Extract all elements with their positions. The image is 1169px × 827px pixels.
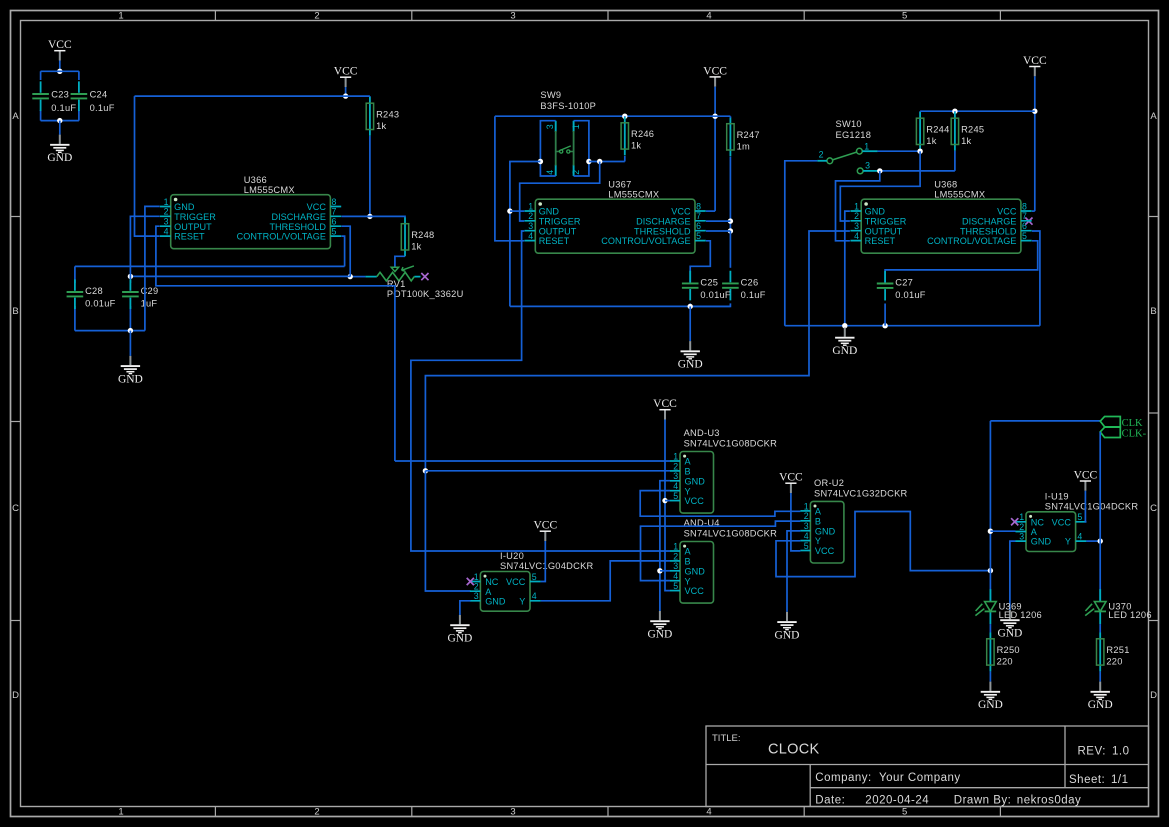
svg-text:R250: R250 xyxy=(997,645,1020,655)
svg-text:3: 3 xyxy=(865,161,870,171)
LED U370 LED 1206 xyxy=(1085,589,1152,624)
wire U367 CONTROL pin5 to C25 xyxy=(690,241,710,283)
wire VCC to OR-U2 pin5 xyxy=(791,493,801,551)
svg-text:REV:: REV: xyxy=(1078,746,1106,758)
junction TRIG/C29 node xyxy=(128,274,133,279)
wire R246 leads xyxy=(624,116,626,161)
svg-text:1: 1 xyxy=(1019,512,1024,522)
svg-text:GND: GND xyxy=(47,152,72,164)
svg-text:3: 3 xyxy=(474,591,479,601)
wire SW9 to R246 xyxy=(589,161,625,163)
svg-text:2: 2 xyxy=(819,150,824,160)
svg-text:LED 1206: LED 1206 xyxy=(999,610,1042,620)
svg-text:VCC: VCC xyxy=(48,39,72,51)
svg-text:GND: GND xyxy=(647,629,672,641)
svg-text:TRIGGER: TRIGGER xyxy=(174,212,216,222)
wire U370 to R251 xyxy=(1099,624,1101,632)
svg-text:2: 2 xyxy=(673,551,678,561)
power VCC above I-U19 xyxy=(1074,470,1098,491)
svg-text:GND: GND xyxy=(1031,537,1052,547)
svg-text:4: 4 xyxy=(854,231,859,241)
svg-text:D: D xyxy=(12,690,19,701)
junction C23/C24 top node xyxy=(57,69,62,74)
wire R244 leads xyxy=(919,111,921,151)
svg-text:R244: R244 xyxy=(926,124,949,134)
wire to U367 TRIGGER pin2 xyxy=(520,162,600,222)
svg-text:B: B xyxy=(685,467,691,477)
svg-text:4: 4 xyxy=(673,481,678,491)
junction R243 / pin7 node xyxy=(367,214,372,219)
svg-text:4: 4 xyxy=(532,591,537,601)
svg-text:2: 2 xyxy=(164,207,169,217)
svg-text:C: C xyxy=(12,503,19,514)
svg-text:C26: C26 xyxy=(741,278,759,288)
junction CLK/LED node xyxy=(988,568,993,573)
svg-text:2: 2 xyxy=(314,807,319,818)
wire U366 CONTROL pin5 via C28 xyxy=(75,236,345,331)
svg-text:3: 3 xyxy=(1019,532,1024,542)
wire U368 GND rail xyxy=(785,325,1040,327)
svg-text:C29: C29 xyxy=(141,286,159,296)
junction U366 VCC rail xyxy=(343,93,348,98)
wire U367 GND pin1 wire xyxy=(510,210,524,212)
svg-text:R243: R243 xyxy=(376,109,399,119)
wire R251 to GND xyxy=(1099,671,1101,681)
svg-text:2: 2 xyxy=(528,211,533,221)
wire SW9 pins 3-4 hook xyxy=(540,121,555,176)
svg-text:4: 4 xyxy=(706,11,711,22)
wire U366 THRESHOLD pin6 down xyxy=(341,226,350,276)
wire SW10 pin3 to R245 xyxy=(878,170,955,172)
svg-text:VCC: VCC xyxy=(779,472,803,484)
ground below U367 xyxy=(678,341,703,371)
wire C26 bottom to GND rail xyxy=(690,303,730,306)
svg-text:NC: NC xyxy=(485,577,499,587)
wire AND-U4 pin3 wire xyxy=(660,570,670,572)
svg-text:3: 3 xyxy=(673,561,678,571)
wire SW10 pin1 to R244 xyxy=(878,150,921,152)
svg-text:B: B xyxy=(12,306,18,317)
svg-text:GND: GND xyxy=(485,596,506,606)
svg-text:1m: 1m xyxy=(737,141,750,151)
wire pin6 to C26 xyxy=(729,231,731,268)
svg-text:1/1: 1/1 xyxy=(1111,774,1129,786)
svg-text:C28: C28 xyxy=(85,286,103,296)
resistor R248 1k xyxy=(401,217,434,256)
junction CLK- node xyxy=(1098,538,1103,543)
svg-text:1k: 1k xyxy=(631,140,641,150)
resistor R247 1m xyxy=(727,117,760,156)
junction AND-U3 VCC node xyxy=(662,498,667,503)
power VCC above C23/C24 xyxy=(48,39,72,60)
svg-text:5: 5 xyxy=(804,541,809,551)
no-connect X I-U20 pin1 xyxy=(467,578,474,585)
ground below U366 xyxy=(118,356,143,386)
svg-text:1: 1 xyxy=(864,141,869,151)
svg-text:LM555CMX: LM555CMX xyxy=(608,190,659,200)
svg-text:GND: GND xyxy=(978,699,1003,711)
svg-text:6: 6 xyxy=(1022,221,1027,231)
wire VCC to U367 RESET pin4 xyxy=(495,116,524,241)
svg-text:R251: R251 xyxy=(1106,645,1129,655)
svg-text:THRESHOLD: THRESHOLD xyxy=(634,226,691,236)
junction AND-U4 GND node xyxy=(657,568,662,573)
svg-text:GND: GND xyxy=(685,476,706,486)
svg-text:I-U19: I-U19 xyxy=(1045,491,1069,501)
wire VCC to I-U19 pin5 xyxy=(1085,491,1086,522)
wire U367 DISCHARGE pin7 wire xyxy=(706,220,730,222)
svg-text:C27: C27 xyxy=(895,278,913,288)
svg-text:0.01uF: 0.01uF xyxy=(700,290,731,300)
junction CLK/I-U19 A node xyxy=(988,529,993,534)
net flag CLK xyxy=(1100,417,1143,429)
wire I-U19 Y wire xyxy=(1086,540,1100,542)
no-connect X RV1 pin3 xyxy=(421,273,428,280)
svg-text:1: 1 xyxy=(528,201,533,211)
wire SW9/U367 VCC rail xyxy=(495,115,731,117)
svg-text:A: A xyxy=(685,457,692,467)
svg-text:VCC: VCC xyxy=(703,65,727,77)
wire U368 GND pin1 down xyxy=(845,211,850,326)
svg-text:4: 4 xyxy=(1077,532,1082,542)
svg-text:OUTPUT: OUTPUT xyxy=(539,226,577,236)
ground below AND-U4 xyxy=(647,611,672,641)
title block xyxy=(706,726,1149,807)
svg-text:RESET: RESET xyxy=(539,236,570,246)
inverter I-U20 SN74LVC1G04DCKR xyxy=(470,551,594,611)
svg-text:1k: 1k xyxy=(961,136,971,146)
wire U368 pin8 wire xyxy=(1032,210,1035,212)
svg-text:GND: GND xyxy=(775,630,800,642)
wire branch to I-U20 A xyxy=(425,471,470,591)
ground below OR-U2 xyxy=(775,612,800,642)
svg-text:220: 220 xyxy=(997,656,1013,666)
wire OR-U2 GND pin3 xyxy=(787,531,800,612)
potentiometer RV1 POT100K_3362U xyxy=(365,266,463,299)
svg-text:CONTROL/VOLTAGE: CONTROL/VOLTAGE xyxy=(601,236,690,246)
svg-text:4: 4 xyxy=(804,531,809,541)
svg-text:SW9: SW9 xyxy=(540,90,561,100)
switch SW9 B3FS-1010P pushbutton xyxy=(540,90,596,176)
border ticks xyxy=(214,11,216,817)
svg-text:TITLE:: TITLE: xyxy=(712,733,741,744)
svg-text:3: 3 xyxy=(804,521,809,531)
junction SW9 right node xyxy=(586,159,591,164)
svg-text:U367: U367 xyxy=(608,180,631,190)
svg-text:Sheet:: Sheet: xyxy=(1069,774,1105,786)
wire CLK- vertical xyxy=(1099,432,1101,602)
svg-text:R245: R245 xyxy=(961,124,984,134)
wire R243 leads xyxy=(369,96,371,216)
svg-text:Drawn By:: Drawn By: xyxy=(954,794,1012,806)
capacitor C26 0.1uF xyxy=(722,271,766,301)
svg-text:8: 8 xyxy=(1022,201,1027,211)
svg-text:0.1uF: 0.1uF xyxy=(51,103,76,113)
svg-text:OR-U2: OR-U2 xyxy=(814,478,844,488)
svg-text:2: 2 xyxy=(673,461,678,471)
wire C27 bottom lead xyxy=(884,304,886,326)
svg-text:VCC: VCC xyxy=(1052,517,1072,527)
junction R247/pin7 node xyxy=(728,218,733,223)
wire AND-U3 Y to OR-U2 A xyxy=(640,491,800,517)
LED U369 LED 1206 xyxy=(975,589,1042,624)
junction R244/pin1/TRIG node xyxy=(917,149,922,154)
junction U367 pin1 node xyxy=(507,208,512,213)
power VCC above I-U20 xyxy=(533,520,557,541)
wire U366 OUTPUT pin3 to AND-U3 A xyxy=(156,226,395,461)
no-connect X U368 pin7 xyxy=(1025,218,1032,225)
svg-text:1: 1 xyxy=(673,451,678,461)
svg-text:1: 1 xyxy=(571,124,581,129)
svg-text:3: 3 xyxy=(854,221,859,231)
wire to I-U19 pin2 A xyxy=(990,530,1015,532)
svg-text:SW10: SW10 xyxy=(836,119,862,129)
svg-text:6: 6 xyxy=(332,217,337,227)
power VCC above U367 xyxy=(703,65,727,86)
svg-text:VCC: VCC xyxy=(533,520,557,532)
svg-text:2: 2 xyxy=(474,582,479,592)
wire U366 OUT to AND-U3 pin1 xyxy=(395,460,670,462)
svg-text:VCC: VCC xyxy=(307,202,327,212)
wire U367 GND rail xyxy=(510,305,731,307)
junction GND rail node xyxy=(128,328,133,333)
junction U368 OUT branch node xyxy=(423,468,428,473)
svg-text:GND: GND xyxy=(865,207,886,217)
wire SW10 pin2 to GND rail xyxy=(785,161,818,326)
svg-text:Y: Y xyxy=(685,576,691,586)
svg-text:7: 7 xyxy=(1022,211,1027,221)
junction C23/C24 bottom node xyxy=(57,118,62,123)
svg-text:5: 5 xyxy=(1077,512,1082,522)
svg-text:1: 1 xyxy=(804,501,809,511)
svg-text:4: 4 xyxy=(164,227,169,237)
junction pin6/C26 node xyxy=(728,228,733,233)
svg-text:LM555CMX: LM555CMX xyxy=(934,190,985,200)
svg-text:nekros0day: nekros0day xyxy=(1017,794,1081,806)
svg-text:POT100K_3362U: POT100K_3362U xyxy=(387,289,464,299)
svg-text:THRESHOLD: THRESHOLD xyxy=(960,226,1017,236)
svg-text:4: 4 xyxy=(528,231,533,241)
svg-text:1k: 1k xyxy=(926,136,936,146)
svg-text:A: A xyxy=(1150,111,1157,122)
svg-text:GND: GND xyxy=(447,633,472,645)
wire U367 pin8 stub wire xyxy=(706,210,715,212)
resistor R245 1k xyxy=(951,112,984,151)
wire AND-U3 pin5 wire xyxy=(665,500,670,502)
wire U368 VCC rail xyxy=(920,110,1035,112)
svg-text:3: 3 xyxy=(164,217,169,227)
svg-text:5: 5 xyxy=(696,231,701,241)
svg-text:B: B xyxy=(815,516,821,526)
svg-text:C24: C24 xyxy=(90,90,108,100)
svg-text:2: 2 xyxy=(804,511,809,521)
svg-text:TRIGGER: TRIGGER xyxy=(539,216,581,226)
svg-text:CONTROL/VOLTAGE: CONTROL/VOLTAGE xyxy=(237,232,326,242)
svg-text:5: 5 xyxy=(673,581,678,591)
svg-text:A: A xyxy=(1031,527,1038,537)
wire AND-U4 Y to OR-U2 B xyxy=(641,521,801,581)
wire U367 THRESHOLD pin6 wire xyxy=(706,230,730,232)
capacitor C23 0.1uF xyxy=(32,81,76,113)
svg-text:GND: GND xyxy=(832,345,857,357)
svg-text:LED 1206: LED 1206 xyxy=(1108,610,1151,620)
junction C27 bottom node xyxy=(882,323,887,328)
wire to U368 TRIGGER pin2 xyxy=(840,151,920,221)
svg-text:220: 220 xyxy=(1106,656,1122,666)
ground below R250 xyxy=(978,682,1003,712)
svg-text:3: 3 xyxy=(673,471,678,481)
resistor R244 1k xyxy=(916,112,949,151)
wire TRIG-THRES link xyxy=(130,275,350,277)
svg-text:5: 5 xyxy=(332,227,337,237)
svg-text:GND: GND xyxy=(1088,699,1113,711)
svg-text:4: 4 xyxy=(545,170,555,175)
svg-text:VCC: VCC xyxy=(815,546,835,556)
svg-text:2: 2 xyxy=(854,211,859,221)
svg-text:U368: U368 xyxy=(934,180,957,190)
svg-text:TRIGGER: TRIGGER xyxy=(865,216,907,226)
svg-text:1: 1 xyxy=(164,197,169,207)
svg-text:0.1uF: 0.1uF xyxy=(90,103,115,113)
wire U368 OUTPUT pin3 long route xyxy=(425,231,850,471)
svg-text:R248: R248 xyxy=(411,230,434,240)
svg-text:DISCHARGE: DISCHARGE xyxy=(636,216,691,226)
svg-text:A: A xyxy=(685,547,692,557)
svg-text:Y: Y xyxy=(815,536,821,546)
ground below C23/C24 xyxy=(47,135,72,165)
svg-text:RV1: RV1 xyxy=(387,279,406,289)
svg-text:GND: GND xyxy=(539,207,560,217)
wire CLK wire to flag xyxy=(990,420,1100,422)
svg-text:8: 8 xyxy=(332,197,337,207)
wire rail to GND symbol xyxy=(689,306,691,341)
svg-text:VCC: VCC xyxy=(685,496,705,506)
resistor R243 1k xyxy=(366,97,399,136)
wire U367 OUTPUT pin3 to AND-U4 A xyxy=(411,231,670,551)
svg-text:VCC: VCC xyxy=(334,66,358,78)
ground below I-U19 xyxy=(997,610,1022,640)
wire branch to AND-U3 B xyxy=(425,470,670,472)
svg-text:DISCHARGE: DISCHARGE xyxy=(962,216,1017,226)
svg-text:3: 3 xyxy=(510,807,515,818)
svg-text:AND-U3: AND-U3 xyxy=(684,428,720,438)
svg-text:C: C xyxy=(1150,503,1157,514)
svg-text:1: 1 xyxy=(474,572,479,582)
svg-text:7: 7 xyxy=(696,211,701,221)
svg-text:0.01uF: 0.01uF xyxy=(895,290,926,300)
wire U366 DISCHARGE pin7 to R248 xyxy=(341,216,405,217)
svg-text:VCC: VCC xyxy=(1074,470,1098,482)
svg-text:SN74LVC1G04DCKR: SN74LVC1G04DCKR xyxy=(1045,501,1139,511)
svg-text:4: 4 xyxy=(673,571,678,581)
power VCC above U366 xyxy=(334,66,358,87)
svg-text:U366: U366 xyxy=(244,175,267,185)
junction SW10 pin3 node xyxy=(877,168,882,173)
wire VCC to I-U20 pin5 xyxy=(541,541,546,582)
svg-text:CLOCK: CLOCK xyxy=(768,742,819,758)
wire GND rail to symbol xyxy=(129,331,131,356)
svg-text:3: 3 xyxy=(528,221,533,231)
wire RV1 left lead wire xyxy=(350,276,365,278)
svg-text:VCC: VCC xyxy=(685,586,705,596)
svg-text:RESET: RESET xyxy=(174,232,205,242)
svg-text:2: 2 xyxy=(571,170,581,175)
svg-text:VCC: VCC xyxy=(653,398,677,410)
capacitor C29 1uF xyxy=(122,279,158,309)
svg-text:VCC: VCC xyxy=(1023,55,1047,67)
wire U366 VCC rail xyxy=(135,95,370,97)
svg-text:Y: Y xyxy=(1065,537,1071,547)
wire VCC stub/pin8 feed U368 xyxy=(1034,76,1036,211)
svg-text:1k: 1k xyxy=(411,241,421,251)
wire R250 to GND xyxy=(989,671,991,681)
svg-text:Company:: Company: xyxy=(815,772,871,784)
svg-text:RESET: RESET xyxy=(865,236,896,246)
svg-text:GND: GND xyxy=(118,374,143,386)
op-amp timer U366 LM555CMX xyxy=(160,175,341,249)
junction R245 top node xyxy=(952,109,957,114)
svg-text:1: 1 xyxy=(854,201,859,211)
wire SW9 to U367 GND/pin1 xyxy=(510,162,541,307)
wire VCC feed AND gates xyxy=(665,420,670,591)
svg-text:SN74LVC1G08DCKR: SN74LVC1G08DCKR xyxy=(684,439,778,449)
svg-text:OUTPUT: OUTPUT xyxy=(174,222,212,232)
op-amp timer U367 LM555CMX xyxy=(525,180,706,254)
junction GND rail node U368 xyxy=(842,323,847,328)
svg-text:4: 4 xyxy=(706,807,711,818)
no-connect X I-U19 pin1 xyxy=(1011,518,1018,525)
wire R248 to RV1 wiper xyxy=(395,256,405,267)
svg-text:R247: R247 xyxy=(737,130,760,140)
svg-text:A: A xyxy=(485,587,492,597)
junction R246 top node xyxy=(622,114,627,119)
svg-text:1: 1 xyxy=(673,541,678,551)
and-gate AND-U4 SN74LVC1G08DCKR xyxy=(670,518,777,603)
svg-text:C25: C25 xyxy=(700,278,718,288)
wire node to GND xyxy=(59,121,61,135)
wire U368 THRESHOLD pin6 to rail xyxy=(1032,231,1040,326)
svg-text:1.0: 1.0 xyxy=(1112,746,1130,758)
wire I-U19 GND pin3 xyxy=(1010,541,1016,610)
wire C25 bottom xyxy=(689,303,691,306)
junction trigger branch node xyxy=(597,159,602,164)
wire I-U20 Y to AND-U4 B xyxy=(541,561,670,601)
svg-text:LM555CMX: LM555CMX xyxy=(244,185,295,195)
svg-text:5: 5 xyxy=(532,572,537,582)
wire I-U20 GND pin3 xyxy=(460,601,471,615)
wire VCC stub U366 xyxy=(345,87,347,96)
svg-text:SN74LVC1G08DCKR: SN74LVC1G08DCKR xyxy=(684,529,778,539)
op-amp timer U368 LM555CMX xyxy=(850,180,1031,254)
resistor R246 1k xyxy=(621,117,654,156)
junction GND rail/C25 node xyxy=(688,304,693,309)
svg-text:EG1218: EG1218 xyxy=(836,130,872,140)
and-gate AND-U3 SN74LVC1G08DCKR xyxy=(670,428,777,513)
ground below I-U20 xyxy=(447,615,472,645)
junction U368 VCC rail node xyxy=(1032,109,1037,114)
svg-text:1: 1 xyxy=(118,807,123,818)
svg-text:1: 1 xyxy=(118,11,123,22)
resistor R250 220 xyxy=(987,633,1020,672)
svg-text:5: 5 xyxy=(902,11,907,22)
wire U369 to R250 xyxy=(989,624,991,632)
power VCC above U368 xyxy=(1023,55,1047,76)
ground below U368 xyxy=(832,328,857,358)
svg-text:GND: GND xyxy=(174,202,195,212)
wire SW10 pin3 to U368 RESET pin4 xyxy=(836,171,880,241)
wire U366 GND pin1 down xyxy=(145,206,160,330)
svg-text:A: A xyxy=(12,111,19,122)
